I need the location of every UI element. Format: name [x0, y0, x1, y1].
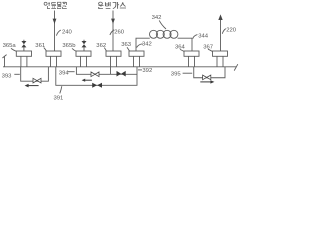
svg-text:365b: 365b [62, 43, 76, 49]
svg-text:260: 260 [114, 29, 125, 35]
svg-text:362: 362 [96, 43, 106, 49]
svg-text:365a: 365a [3, 43, 17, 49]
svg-text:395: 395 [171, 71, 182, 77]
svg-text:394: 394 [59, 70, 70, 76]
svg-text:342: 342 [152, 15, 162, 21]
svg-text:364: 364 [175, 45, 186, 51]
svg-text:393: 393 [2, 73, 13, 79]
svg-text:220: 220 [226, 27, 237, 33]
svg-text:361: 361 [35, 43, 45, 49]
svg-text:363: 363 [121, 42, 132, 48]
svg-text:392: 392 [142, 68, 152, 74]
svg-text:344: 344 [198, 33, 209, 39]
svg-text:367: 367 [203, 44, 213, 50]
svg-text:391: 391 [54, 95, 64, 101]
svg-text:342: 342 [142, 42, 152, 48]
svg-text:240: 240 [62, 29, 73, 35]
